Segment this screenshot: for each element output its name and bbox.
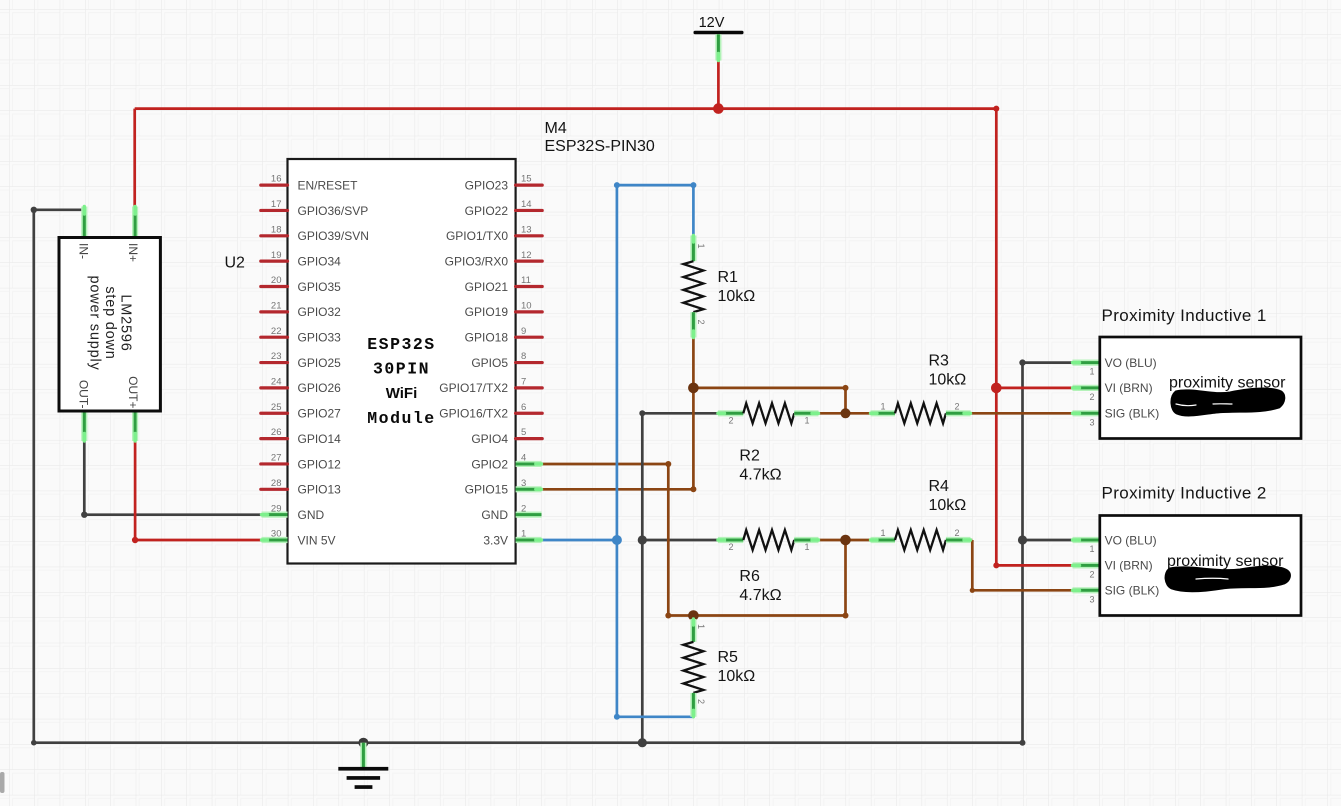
- bendpoint 12V rail right corner: [993, 106, 999, 112]
- svg-text:LM2596: LM2596: [117, 294, 133, 351]
- M4 pin 4 (GPIO2): [471, 453, 541, 472]
- wire LM2596 OUT- to ESP GND pin29: [84, 513, 262, 516]
- junction node R2/R3: [841, 408, 851, 418]
- junction node B (R6/R4): [840, 535, 851, 546]
- svg-text:2: 2: [696, 699, 706, 704]
- svg-text:9: 9: [521, 326, 526, 337]
- svg-text:1: 1: [880, 528, 885, 538]
- svg-text:R1: R1: [718, 269, 739, 286]
- svg-text:VI (BRN): VI (BRN): [1105, 559, 1153, 573]
- M4 pin 26 (GPIO14): [261, 427, 341, 446]
- svg-text:3: 3: [1089, 417, 1094, 427]
- M4 pin 18 (GPIO39/SVN): [261, 224, 369, 243]
- svg-text:GPIO36/SVP: GPIO36/SVP: [298, 204, 369, 218]
- svg-text:GPIO32: GPIO32: [298, 305, 342, 319]
- svg-text:GPIO14: GPIO14: [298, 432, 342, 446]
- svg-text:GPIO22: GPIO22: [465, 204, 509, 218]
- M4 pin 27 (GPIO12): [261, 453, 341, 472]
- wire LM2596 IN- horizontal: [34, 208, 85, 211]
- svg-text:VO (BLU): VO (BLU): [1105, 356, 1157, 370]
- junction blue 3.3V: [612, 535, 622, 545]
- svg-text:2: 2: [954, 402, 959, 412]
- bendpoint gray R2 corner: [639, 410, 645, 416]
- wire blue vertical: [616, 185, 619, 717]
- svg-text:1: 1: [521, 529, 526, 540]
- wire node to R3 left: [846, 412, 871, 415]
- M4 pin 24 (GPIO26): [261, 377, 341, 396]
- sensor2 redacted scribble: [1166, 567, 1289, 591]
- svg-text:GPIO17/TX2: GPIO17/TX2: [439, 381, 508, 395]
- sensor Proximity Inductive 1 box: [1073, 337, 1302, 439]
- svg-text:3: 3: [1089, 594, 1094, 604]
- svg-text:25: 25: [271, 402, 282, 413]
- resistor R2: [718, 403, 819, 425]
- svg-text:GPIO12: GPIO12: [298, 457, 342, 471]
- M4 pin 8 (GPIO5): [471, 351, 542, 370]
- svg-text:3: 3: [521, 478, 526, 489]
- svg-text:Proximity Inductive 1: Proximity Inductive 1: [1102, 306, 1267, 325]
- wire LM2596 OUT- drop: [83, 440, 86, 515]
- svg-text:10kΩ: 10kΩ: [929, 497, 967, 514]
- M4 pin 17 (GPIO36/SVP): [261, 199, 368, 218]
- svg-text:VI (BRN): VI (BRN): [1105, 381, 1153, 395]
- U2 pin OUT+ stub: [132, 411, 138, 441]
- bendpoint blue bottom-left: [614, 714, 620, 720]
- bendpoint OUT- corner: [81, 512, 87, 518]
- svg-text:SIG (BLK): SIG (BLK): [1105, 407, 1160, 421]
- wire node A horizontal: [693, 387, 845, 390]
- M4 pin 6 (GPIO16/TX2): [439, 402, 542, 421]
- M4 pin 16 (EN/RESET): [261, 174, 358, 193]
- U2 pin IN- stub: [81, 207, 87, 238]
- wire VO sensor2: [1023, 539, 1075, 542]
- M4 pin 20 (GPIO35): [261, 275, 341, 294]
- svg-text:R5: R5: [718, 649, 739, 666]
- svg-text:GPIO4: GPIO4: [471, 432, 508, 446]
- wire node B vertical down: [844, 540, 847, 616]
- svg-text:11: 11: [521, 275, 531, 286]
- wire R1 bottom lead brown: [692, 338, 695, 388]
- svg-text:GPIO5: GPIO5: [471, 356, 508, 370]
- svg-text:GPIO26: GPIO26: [298, 381, 342, 395]
- sensor Proximity Inductive 2 box: [1073, 516, 1302, 616]
- svg-text:R3: R3: [929, 353, 950, 370]
- junction gray R6 row: [638, 535, 647, 544]
- svg-text:7: 7: [521, 377, 526, 388]
- wire gray right vertical: [1021, 363, 1024, 743]
- svg-text:1: 1: [696, 244, 706, 249]
- svg-text:GND: GND: [298, 508, 325, 522]
- svg-text:step down: step down: [102, 286, 118, 359]
- svg-text:17: 17: [271, 199, 282, 210]
- wire GPIO15 brown horizontal: [541, 488, 693, 491]
- svg-text:12V: 12V: [699, 15, 725, 31]
- junction 12V rail: [713, 103, 724, 114]
- bendpoint GPIO2 corner: [665, 461, 671, 467]
- resistor R1: [683, 236, 706, 338]
- svg-text:21: 21: [271, 300, 282, 311]
- bendpoint OUT+ corner: [132, 537, 138, 543]
- wire node B bottom row to R5 node: [693, 614, 845, 617]
- endpoint gray bottom rail right: [1020, 740, 1026, 746]
- M4 pin 22 (GPIO33): [261, 326, 341, 345]
- wire R3 right to SIG sensor1: [971, 412, 1075, 415]
- svg-text:30PIN: 30PIN: [373, 360, 430, 379]
- svg-text:2: 2: [1089, 569, 1094, 579]
- wire 12V rail top horizontal: [135, 107, 997, 110]
- ground: [338, 743, 388, 789]
- svg-text:GPIO27: GPIO27: [298, 407, 342, 421]
- wire 12V symbol to rail: [717, 60, 720, 109]
- M4 pin 11 (GPIO21): [465, 275, 543, 294]
- wire R4 drop: [971, 540, 974, 590]
- svg-text:M4: M4: [545, 120, 567, 137]
- M4 pin 29 (GND): [262, 503, 325, 522]
- bendpoint VO sensor1 corner: [1019, 359, 1025, 365]
- wire GND bottom rail: [34, 741, 1023, 744]
- svg-text:2: 2: [696, 320, 706, 325]
- svg-text:R6: R6: [739, 568, 760, 585]
- M4 pin 21 (GPIO32): [261, 300, 341, 319]
- M4 pin 30 (VIN 5V): [262, 529, 336, 548]
- bendpoint IN- corner: [31, 207, 37, 213]
- M4 pin 19 (GPIO34): [261, 250, 341, 269]
- svg-text:power supply: power supply: [87, 275, 103, 370]
- svg-text:18: 18: [271, 224, 282, 235]
- svg-text:ESP32S-PIN30: ESP32S-PIN30: [545, 138, 655, 155]
- svg-text:OUT+: OUT+: [126, 376, 140, 408]
- svg-text:27: 27: [271, 453, 282, 464]
- wire LM2596 OUT+ drop: [134, 440, 137, 541]
- wire LM2596 OUT+ to VIN 5V: [135, 539, 262, 542]
- bendpoint node A corner: [843, 385, 849, 391]
- svg-text:23: 23: [271, 351, 282, 362]
- wire GPIO2 brown horizontal: [541, 463, 668, 466]
- svg-text:26: 26: [271, 427, 282, 438]
- svg-text:WiFi: WiFi: [386, 385, 418, 402]
- svg-text:6: 6: [521, 402, 526, 413]
- M4 pin 14 (GPIO22): [465, 199, 543, 218]
- svg-text:16: 16: [271, 174, 282, 185]
- svg-text:12: 12: [521, 250, 532, 261]
- bendpoint GPIO15 corner: [690, 486, 696, 492]
- svg-text:4.7kΩ: 4.7kΩ: [739, 467, 781, 484]
- svg-text:30: 30: [271, 529, 282, 540]
- svg-text:GPIO33: GPIO33: [298, 331, 342, 345]
- junction gray bottom rail mid: [638, 738, 647, 747]
- wire GPIO2 to node R5: [668, 614, 693, 617]
- bendpoint blue top-right: [690, 182, 696, 188]
- sensor2 pin 2 VI (BRN) stub: [1073, 562, 1100, 568]
- svg-text:R2: R2: [739, 448, 760, 465]
- wire VI sensor2: [996, 564, 1074, 567]
- wire R4 to SIG sensor2: [972, 589, 1074, 592]
- wire GND left vertical: [32, 210, 35, 743]
- bendpoint blue top-left: [614, 182, 620, 188]
- svg-text:28: 28: [271, 478, 282, 489]
- svg-text:22: 22: [271, 326, 282, 337]
- wire R2 right to node: [819, 412, 846, 415]
- svg-text:2: 2: [521, 503, 526, 514]
- svg-text:SIG (BLK): SIG (BLK): [1105, 584, 1160, 598]
- svg-text:19: 19: [271, 250, 282, 261]
- M4 pin 3 (GPIO15): [465, 478, 542, 497]
- svg-text:10kΩ: 10kΩ: [718, 288, 756, 305]
- svg-text:GPIO15: GPIO15: [465, 483, 509, 497]
- svg-text:EN/RESET: EN/RESET: [298, 178, 359, 192]
- svg-text:GPIO25: GPIO25: [298, 356, 342, 370]
- IC M4 ESP32S-PIN30 module box: [288, 159, 516, 564]
- svg-text:2: 2: [728, 416, 733, 426]
- svg-text:VIN 5V: VIN 5V: [298, 533, 336, 547]
- svg-text:29: 29: [271, 503, 282, 514]
- svg-text:4: 4: [521, 453, 526, 464]
- svg-text:1: 1: [804, 416, 809, 426]
- svg-text:2: 2: [728, 542, 733, 552]
- svg-text:3.3V: 3.3V: [483, 533, 508, 547]
- M4 pin 7 (GPIO17/TX2): [439, 377, 542, 396]
- svg-text:2: 2: [954, 528, 959, 538]
- M4 pin 23 (GPIO25): [261, 351, 341, 370]
- M4 pin 5 (GPIO4): [471, 427, 542, 446]
- svg-text:IN+: IN+: [126, 243, 140, 262]
- wire 3.3V pin to blue vertical: [541, 539, 617, 542]
- M4 pin 1 (3.3V): [483, 529, 541, 548]
- sensor1 redacted scribble: [1172, 389, 1284, 415]
- wire R6 right to node B: [819, 539, 846, 542]
- svg-text:10kΩ: 10kΩ: [929, 372, 967, 389]
- svg-text:1: 1: [696, 624, 706, 629]
- M4 pin 9 (GPIO18): [465, 326, 543, 345]
- junction ground on bottom rail: [358, 738, 368, 748]
- svg-text:24: 24: [271, 377, 282, 388]
- wire blue drop to R1: [692, 185, 695, 235]
- bendpoint GPIO2 bottom corner: [665, 613, 671, 619]
- svg-text:15: 15: [521, 174, 532, 185]
- junction VI sensor1 on red drop: [991, 383, 1002, 394]
- svg-text:2: 2: [1089, 392, 1094, 402]
- bendpoint VI sensor2 corner: [993, 562, 999, 568]
- sensor1 pin 2 VI (BRN) stub: [1073, 385, 1100, 391]
- sensor1 pin 1 VO (BLU) stub: [1073, 360, 1100, 366]
- resistor R6: [718, 530, 819, 552]
- wire 12V rail right drop: [995, 109, 998, 566]
- svg-text:OUT-: OUT-: [77, 380, 91, 409]
- svg-text:1: 1: [880, 402, 885, 412]
- wire VI sensor1: [996, 387, 1074, 390]
- svg-text:IN-: IN-: [77, 243, 91, 259]
- wire node B to R4 left: [846, 539, 871, 542]
- svg-text:GPIO35: GPIO35: [298, 280, 342, 294]
- svg-text:GPIO16/TX2: GPIO16/TX2: [439, 407, 508, 421]
- junction node R5/GPIO2/R6: [688, 610, 699, 621]
- M4 title ESP32S 30PIN WiFi Module: [367, 335, 435, 428]
- power symbol 12V: [694, 15, 744, 61]
- svg-text:8: 8: [521, 351, 526, 362]
- svg-text:Proximity Inductive 2: Proximity Inductive 2: [1102, 484, 1267, 503]
- sensor2 pin 3 SIG (BLK) stub: [1073, 587, 1100, 593]
- U2 pin IN+ stub: [132, 207, 138, 238]
- svg-text:20: 20: [271, 275, 282, 286]
- svg-text:Module: Module: [367, 409, 435, 428]
- wire blue bottom horizontal to R5: [617, 715, 694, 718]
- sensor1 pin 3 SIG (BLK) stub: [1073, 410, 1100, 416]
- svg-text:ESP32S: ESP32S: [367, 335, 435, 354]
- resistor R4: [871, 528, 971, 550]
- svg-text:GPIO13: GPIO13: [298, 483, 342, 497]
- svg-text:GPIO39/SVN: GPIO39/SVN: [298, 229, 369, 243]
- svg-text:10kΩ: 10kΩ: [718, 668, 756, 685]
- resistor R3: [871, 402, 971, 424]
- bendpoint R4 out corner: [970, 588, 975, 593]
- wire gray feed R2: [642, 412, 719, 415]
- wire VO sensor1: [1023, 361, 1075, 364]
- svg-text:13: 13: [521, 224, 532, 235]
- M4 pin 10 (GPIO19): [465, 300, 543, 319]
- wire node A drop to R2/R3 row: [844, 388, 847, 413]
- wire 12V rail left drop to LM2596 IN+: [133, 109, 136, 208]
- svg-text:1: 1: [804, 542, 809, 552]
- resistor R5: [683, 619, 706, 717]
- svg-text:GPIO1/TX0: GPIO1/TX0: [446, 229, 508, 243]
- wire blue top horizontal: [617, 184, 694, 187]
- wire gray feed R6: [642, 539, 719, 542]
- junction node A (R1/GPIO15): [688, 383, 699, 394]
- M4 pin 2 (GND): [481, 503, 541, 522]
- svg-text:1: 1: [1089, 367, 1094, 377]
- power module U2 LM2596 box: [59, 207, 160, 442]
- svg-text:10: 10: [521, 300, 532, 311]
- svg-text:GND: GND: [481, 508, 508, 522]
- M4 pin 12 (GPIO3/RX0): [445, 250, 543, 269]
- bendpoint GND bottom-left corner: [31, 740, 37, 746]
- svg-text:GPIO34: GPIO34: [298, 254, 342, 268]
- svg-text:U2: U2: [225, 255, 246, 272]
- M4 pin 25 (GPIO27): [261, 402, 341, 421]
- wire R4 right corner: [971, 539, 973, 542]
- svg-text:R4: R4: [929, 478, 950, 495]
- junction VO sensor2: [1018, 535, 1027, 544]
- svg-text:VO (BLU): VO (BLU): [1105, 533, 1157, 547]
- svg-text:5: 5: [521, 427, 526, 438]
- svg-text:GPIO18: GPIO18: [465, 331, 509, 345]
- svg-text:GPIO19: GPIO19: [465, 305, 509, 319]
- svg-text:GPIO21: GPIO21: [465, 280, 509, 294]
- svg-text:GPIO23: GPIO23: [465, 178, 509, 192]
- svg-text:14: 14: [521, 199, 532, 210]
- M4 pin 13 (GPIO1/TX0): [446, 224, 542, 243]
- svg-text:GPIO2: GPIO2: [471, 457, 508, 471]
- wire GPIO2 brown vertical: [667, 464, 670, 616]
- sensor2 pin 1 VO (BLU) stub: [1073, 537, 1100, 543]
- M4 pin 28 (GPIO13): [261, 478, 341, 497]
- M4 pin 15 (GPIO23): [465, 174, 543, 193]
- wire gray mid vertical: [641, 413, 644, 742]
- U2 pin OUT- stub: [81, 411, 87, 441]
- svg-text:4.7kΩ: 4.7kΩ: [739, 587, 781, 604]
- wire GPIO15 brown vertical up: [692, 388, 695, 489]
- svg-text:1: 1: [1089, 544, 1094, 554]
- bendpoint node B bottom corner: [843, 613, 849, 619]
- scrollbar artifact bottom-left: [0, 772, 5, 793]
- svg-text:GPIO3/RX0: GPIO3/RX0: [445, 254, 509, 268]
